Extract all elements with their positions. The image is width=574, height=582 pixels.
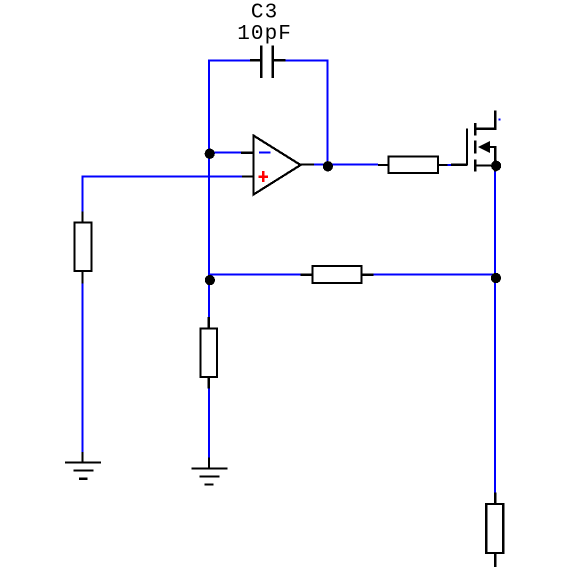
svg-text:C3: C3 <box>251 2 278 25</box>
svg-text:10pF: 10pF <box>237 23 292 46</box>
